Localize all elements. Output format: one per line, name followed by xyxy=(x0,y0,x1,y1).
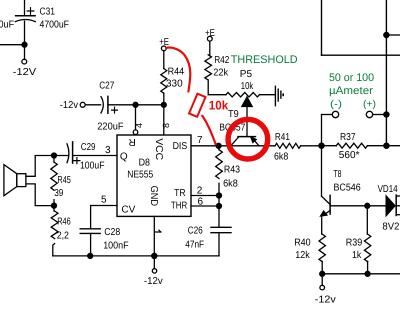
svg-text:C29: C29 xyxy=(81,142,96,153)
svg-text:µAmeter: µAmeter xyxy=(329,85,373,97)
svg-text:C31: C31 xyxy=(40,7,56,18)
node GND pin bottom xyxy=(152,253,157,258)
svg-text:100uF: 100uF xyxy=(80,160,105,171)
node junction C31/-12V xyxy=(22,42,27,47)
svg-text:330: 330 xyxy=(166,79,183,90)
resistor R41 xyxy=(275,143,301,148)
svg-text:47nF: 47nF xyxy=(185,239,204,250)
terminal -12v xyxy=(80,102,85,107)
wire node to -12v terminal xyxy=(153,256,155,269)
svg-text:R46: R46 xyxy=(57,217,71,228)
wire DIS pin to R41 (node under T9) xyxy=(191,145,275,147)
svg-text:+E: +E xyxy=(205,28,215,39)
svg-text:THR: THR xyxy=(171,200,187,211)
wire C27 to R44 node xyxy=(108,104,164,106)
svg-text:1k: 1k xyxy=(352,250,362,261)
capacitor C28 xyxy=(80,229,100,234)
svg-text:C27: C27 xyxy=(99,80,115,91)
svg-text:2,2: 2,2 xyxy=(57,231,70,242)
svg-text:T8: T8 xyxy=(334,169,342,180)
wire to -12v terminal xyxy=(321,274,323,286)
bottom rail (left section) xyxy=(53,255,219,257)
reset pin bubble xyxy=(133,130,138,135)
terminal meter plus xyxy=(366,111,372,117)
wire R42 to pot xyxy=(208,80,226,95)
svg-text:R40: R40 xyxy=(294,237,311,248)
resistor R39 xyxy=(364,206,370,274)
wire CV pin to C28 xyxy=(91,206,117,229)
svg-text:-12v: -12v xyxy=(60,100,78,111)
capacitor C26 xyxy=(211,227,231,232)
wire node to reset bubble xyxy=(135,105,137,130)
svg-text:T9: T9 xyxy=(228,109,239,120)
node R40 bottom xyxy=(320,271,325,276)
svg-text:NE555: NE555 xyxy=(127,169,153,180)
wire R37 to right rail and edge xyxy=(367,145,400,147)
svg-text:8: 8 xyxy=(161,123,171,128)
svg-text:R39: R39 xyxy=(346,237,363,248)
wire R44 to node xyxy=(163,93,165,105)
bottom rail (right section) xyxy=(322,273,400,275)
wire box output to edge xyxy=(386,34,400,36)
wire node to VCC pin xyxy=(163,105,165,135)
wire +E to R42 xyxy=(209,41,211,55)
svg-text:R45: R45 xyxy=(57,175,71,186)
resistor R44 xyxy=(161,69,167,94)
node THR xyxy=(217,204,222,209)
svg-text:50 or 100: 50 or 100 xyxy=(329,72,374,84)
svg-text:-12v: -12v xyxy=(144,276,163,287)
wire TR-THR-C26 riser xyxy=(218,196,220,228)
transistor T8 BC546 xyxy=(320,195,330,234)
red annotation: circle around T9 xyxy=(228,119,268,159)
svg-text:560*: 560* xyxy=(339,150,360,161)
wire node to R37 xyxy=(322,145,337,147)
svg-text:CV: CV xyxy=(121,204,135,215)
wire minus terminal to left rail xyxy=(322,114,333,116)
wire speaker bottom xyxy=(26,184,54,206)
pin 1 label (rotated tick) xyxy=(155,230,161,232)
svg-text:Q: Q xyxy=(120,151,128,162)
red annotation: lower lead xyxy=(202,116,215,145)
resistor R46 xyxy=(51,206,58,256)
capacitor C31 xyxy=(15,0,35,45)
wire plus terminal to right rail xyxy=(373,114,387,116)
svg-text:TR: TR xyxy=(174,188,186,199)
wire C28 to bottom rail xyxy=(90,233,92,256)
node R41/R37/T8 xyxy=(319,143,324,148)
transistor T9 BC557 xyxy=(231,137,259,146)
speaker xyxy=(4,165,26,196)
svg-text:22k: 22k xyxy=(213,67,229,78)
svg-text:VD14: VD14 xyxy=(378,184,398,195)
svg-text:R41: R41 xyxy=(275,132,290,143)
wire Q pin to C29 xyxy=(73,155,117,157)
svg-text:4700uF: 4700uF xyxy=(40,20,70,31)
svg-text:GND: GND xyxy=(148,186,159,207)
resistor R40 xyxy=(319,234,325,274)
wire THR pin xyxy=(191,205,219,207)
svg-text:220uF: 220uF xyxy=(97,121,123,132)
node R37 right xyxy=(384,143,389,148)
555 IC box D8 xyxy=(117,135,191,216)
terminal meter minus xyxy=(332,111,338,117)
red annotation: curve from +E xyxy=(166,48,190,92)
resistor R43 xyxy=(216,146,223,196)
wire pot to ground xyxy=(260,94,276,96)
svg-text:-12v: -12v xyxy=(315,295,336,306)
svg-text:6k8: 6k8 xyxy=(274,151,289,162)
svg-text:DIS: DIS xyxy=(173,141,188,152)
ground symbol xyxy=(275,86,283,105)
capacitor C27 xyxy=(101,96,117,113)
svg-text:VCC: VCC xyxy=(153,138,164,160)
terminal -12v (bottom centre) xyxy=(152,269,156,273)
wire to left edge xyxy=(0,44,25,46)
wire R41 to node xyxy=(301,145,322,147)
svg-text:6k8: 6k8 xyxy=(223,179,238,190)
wire TR pin xyxy=(191,195,219,197)
resistor R42 xyxy=(205,55,212,80)
svg-text:BC546: BC546 xyxy=(334,182,362,193)
svg-text:D8: D8 xyxy=(139,157,151,168)
node TR xyxy=(217,193,222,198)
wire GND pin (pin 1) xyxy=(153,216,155,256)
terminal -12v (bottom right) xyxy=(320,285,325,290)
svg-text:R37: R37 xyxy=(340,132,356,143)
node reset-pin branch xyxy=(133,102,138,107)
svg-text:R42: R42 xyxy=(214,55,230,66)
resistor R37 xyxy=(336,143,367,148)
svg-text:3: 3 xyxy=(105,145,111,156)
svg-text:R44: R44 xyxy=(168,66,185,77)
svg-text:-12V: -12V xyxy=(13,67,37,78)
svg-text:C28: C28 xyxy=(104,227,120,238)
zener diode VD14 xyxy=(386,195,400,216)
terminal +E xyxy=(161,46,166,51)
wire terminal to C27 xyxy=(85,104,100,106)
potentiometer P5 xyxy=(226,93,260,97)
terminal +E xyxy=(207,36,212,41)
node plus rail xyxy=(384,112,389,117)
node DIS/T9/R43 xyxy=(216,143,221,148)
svg-text:7: 7 xyxy=(197,135,203,146)
svg-text:4: 4 xyxy=(134,123,144,128)
capacitor C29 xyxy=(67,142,80,164)
node C28 bottom xyxy=(88,253,93,258)
svg-text:(-): (-) xyxy=(330,99,342,110)
svg-text:10k: 10k xyxy=(241,81,254,92)
wire +E to R44 xyxy=(163,51,165,69)
node R44/VCC branch xyxy=(161,102,166,107)
node speaker/R45 top xyxy=(52,153,57,158)
wire speaker top xyxy=(26,156,54,177)
red annotation: 10k resistor box xyxy=(189,94,206,117)
svg-text:C26: C26 xyxy=(188,225,204,236)
svg-text:8V2: 8V2 xyxy=(382,221,399,232)
wire C29 to node xyxy=(54,155,67,157)
svg-text:R: R xyxy=(129,136,136,147)
svg-text:39: 39 xyxy=(54,188,64,199)
resistor R45 xyxy=(51,156,57,206)
node R45/R46/speaker xyxy=(52,203,57,208)
svg-text:12k: 12k xyxy=(295,250,310,261)
wire T8 base to VD14 xyxy=(330,205,386,207)
left rail down to T8 collector xyxy=(321,115,323,197)
P5 wiper arrow xyxy=(242,97,253,107)
svg-text:P5: P5 xyxy=(240,69,253,80)
node R39 bottom xyxy=(365,271,370,276)
terminal -12V xyxy=(22,59,27,64)
svg-text:100nF: 100nF xyxy=(103,241,128,252)
wire C26 to bottom rail xyxy=(218,233,220,256)
node box output xyxy=(384,32,389,37)
svg-text:(+): (+) xyxy=(363,99,376,110)
svg-text:0uF: 0uF xyxy=(0,20,14,31)
node R39 top xyxy=(365,203,370,208)
svg-text:R43: R43 xyxy=(224,165,241,176)
wire down to -12V terminal xyxy=(24,45,26,60)
svg-text:5: 5 xyxy=(101,194,107,205)
svg-text:THRESHOLD: THRESHOLD xyxy=(231,54,298,66)
top right box xyxy=(322,0,400,146)
wire wiper to T9 collector xyxy=(246,107,248,137)
svg-text:10k: 10k xyxy=(209,99,228,113)
